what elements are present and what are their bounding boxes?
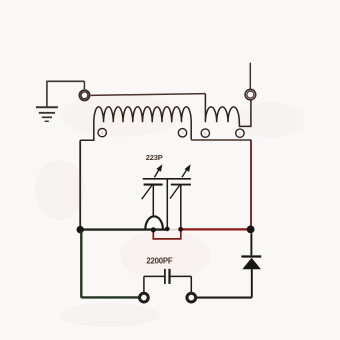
svg-text:223P: 223P	[146, 153, 163, 162]
svg-text:2200PF: 2200PF	[146, 257, 173, 266]
